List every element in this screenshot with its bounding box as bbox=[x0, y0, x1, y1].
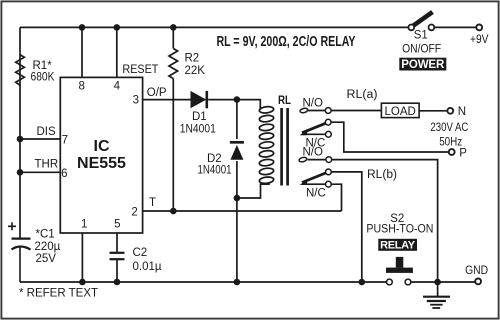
svg-text:T: T bbox=[149, 197, 156, 209]
wire D2 lower lead bbox=[236, 161, 238, 282]
svg-text:8: 8 bbox=[78, 81, 84, 93]
svg-text:C2: C2 bbox=[133, 247, 148, 259]
svg-text:* REFER TEXT: * REFER TEXT bbox=[19, 288, 98, 300]
wire RLa NO to LOAD bbox=[331, 110, 381, 112]
svg-text:NE555: NE555 bbox=[77, 155, 126, 172]
LOAD box bbox=[381, 103, 419, 117]
wire RLa NC stub bbox=[302, 133, 326, 135]
wire RLb pole down to rail bbox=[331, 172, 362, 282]
node dot rail D2 bbox=[234, 279, 241, 286]
svg-text:POWER: POWER bbox=[401, 59, 445, 71]
S2 terminal circles bbox=[387, 279, 393, 285]
svg-text:220µ: 220µ bbox=[35, 241, 61, 253]
contact RLa N/O pivot oval bbox=[300, 108, 309, 114]
S2 push button plunger bbox=[396, 257, 404, 268]
C1 plus sign bbox=[8, 222, 16, 230]
contact RLb arm bbox=[302, 173, 326, 183]
svg-text:S1: S1 bbox=[414, 30, 428, 42]
svg-text:*C1: *C1 bbox=[36, 229, 55, 241]
node dot coil bottom bbox=[234, 195, 241, 202]
POWER box bbox=[399, 58, 446, 71]
svg-text:ON/OFF: ON/OFF bbox=[402, 44, 441, 56]
terminal N bbox=[447, 108, 453, 114]
contact RLa pole circle bbox=[325, 119, 331, 125]
capacitor C1 bbox=[12, 239, 31, 282]
wire C2 to rail bbox=[116, 260, 118, 282]
contact RLb N/O terminal circle bbox=[326, 157, 332, 163]
node dot D1-D2 bbox=[234, 96, 241, 103]
node dot top pin4 bbox=[114, 24, 121, 31]
wire pin2 T line bbox=[143, 210, 342, 212]
terminal P bbox=[449, 149, 455, 155]
contact RLa N/C terminal circle bbox=[326, 131, 332, 137]
contact RLb N/C terminal circle bbox=[326, 181, 332, 187]
contact RLb N/O pivot oval bbox=[299, 157, 308, 163]
svg-text:D1: D1 bbox=[192, 111, 207, 123]
resistor R2 bbox=[169, 49, 178, 79]
wire coil bottom jog bbox=[237, 184, 270, 198]
svg-text:RL(b): RL(b) bbox=[367, 169, 397, 181]
svg-text:0.01µ: 0.01µ bbox=[133, 261, 162, 273]
wire RLa pole to P bbox=[331, 122, 449, 152]
wire pin8 bbox=[81, 27, 83, 77]
node dot DIS bbox=[17, 136, 24, 143]
capacitor C2 bbox=[110, 253, 125, 259]
wire pin1 bbox=[81, 233, 83, 282]
wire D2 branch vertical bbox=[236, 100, 238, 139]
relay coil RL bbox=[259, 106, 274, 184]
svg-text:1N4001: 1N4001 bbox=[180, 124, 216, 136]
wire RLa NO oval to circle bbox=[308, 110, 326, 112]
wire GND stem bbox=[437, 282, 439, 297]
svg-text:GND: GND bbox=[465, 265, 488, 277]
wire pin6 THR bbox=[20, 171, 60, 173]
svg-text:P: P bbox=[459, 147, 467, 159]
wire S1 to +9V bbox=[435, 26, 477, 28]
wire RLb NC stub bbox=[302, 183, 326, 185]
wire pin4 bbox=[116, 27, 118, 77]
wire left rail bbox=[19, 27, 21, 238]
wire R2 bottom lead to T line bbox=[172, 79, 174, 212]
node dot R2-T bbox=[170, 208, 177, 215]
svg-text:230V AC: 230V AC bbox=[430, 122, 468, 134]
svg-text:DIS: DIS bbox=[37, 126, 57, 138]
svg-text:5: 5 bbox=[114, 219, 120, 231]
contact RLb arm pivot wedge bbox=[300, 179, 308, 185]
contact RLa arm bbox=[302, 123, 326, 133]
wire LOAD to N bbox=[419, 110, 447, 112]
diode D2 bbox=[230, 142, 244, 160]
contact RLb pole circle bbox=[326, 169, 332, 175]
terminal +9V bbox=[476, 25, 482, 31]
svg-text:RL(a): RL(a) bbox=[347, 89, 378, 101]
svg-text:LOAD: LOAD bbox=[385, 106, 416, 118]
RELAY box bbox=[378, 239, 417, 251]
svg-text:RL: RL bbox=[278, 95, 291, 107]
svg-text:1: 1 bbox=[81, 219, 87, 231]
svg-text:PUSH-TO-ON: PUSH-TO-ON bbox=[366, 223, 433, 235]
node dot rail C2 bbox=[114, 279, 121, 286]
relay core bars bbox=[280, 108, 283, 186]
terminal GND bbox=[475, 279, 481, 285]
wire pin7 DIS bbox=[20, 138, 60, 140]
node dot top pin8 bbox=[79, 24, 86, 31]
wire D1 to coil top bbox=[208, 100, 260, 109]
svg-text:+9V: +9V bbox=[470, 34, 489, 46]
wire R2 top lead bbox=[172, 27, 174, 48]
svg-text:7: 7 bbox=[62, 135, 68, 147]
svg-text:R2: R2 bbox=[185, 53, 200, 65]
svg-text:RESET: RESET bbox=[122, 64, 158, 76]
svg-text:RELAY: RELAY bbox=[380, 240, 416, 252]
wire RLb NO down right side bbox=[332, 160, 438, 282]
wire pin5 to C2 bbox=[116, 233, 118, 252]
node dot THR bbox=[17, 169, 24, 176]
svg-text:N/O: N/O bbox=[303, 97, 324, 109]
wire RLb NC jog up bbox=[331, 184, 341, 211]
svg-text:RL = 9V, 200Ω, 2C/O RELAY: RL = 9V, 200Ω, 2C/O RELAY bbox=[217, 34, 356, 50]
svg-text:4: 4 bbox=[114, 81, 121, 93]
svg-text:R1*: R1* bbox=[33, 60, 53, 72]
node dot rail pin1 bbox=[79, 279, 86, 286]
svg-text:1N4001: 1N4001 bbox=[198, 165, 232, 177]
wire bottom rail left section bbox=[20, 281, 387, 283]
diode D1 bbox=[191, 91, 207, 108]
svg-text:3: 3 bbox=[133, 95, 139, 107]
svg-text:6: 6 bbox=[61, 168, 67, 180]
wire RLb NO oval to circle bbox=[308, 159, 326, 161]
svg-text:2: 2 bbox=[131, 206, 137, 218]
svg-text:N/O: N/O bbox=[303, 146, 324, 158]
svg-text:N: N bbox=[458, 106, 466, 118]
wire top rail bbox=[20, 26, 408, 28]
svg-text:IC: IC bbox=[94, 138, 110, 155]
svg-text:22K: 22K bbox=[185, 65, 206, 77]
op-amp U1 IC NE555 box bbox=[60, 77, 142, 233]
svg-text:O/P: O/P bbox=[147, 87, 167, 99]
svg-text:D2: D2 bbox=[207, 153, 222, 165]
ground bbox=[423, 297, 450, 308]
node dot rail RLb pole bbox=[359, 279, 366, 286]
svg-text:N/C: N/C bbox=[306, 188, 326, 200]
resistor R1 bbox=[16, 55, 25, 86]
node dot rail ground bbox=[434, 279, 441, 286]
contact RLa N/O terminal circle bbox=[325, 108, 331, 114]
wire bottom rail right section bbox=[411, 281, 475, 283]
wire pin3 O/P to D1 bbox=[143, 99, 191, 101]
node dot top R2 bbox=[170, 24, 177, 31]
contact RLa arm pivot wedge bbox=[300, 129, 308, 135]
svg-text:THR: THR bbox=[35, 159, 59, 171]
svg-text:25V: 25V bbox=[36, 253, 57, 265]
svg-text:680K: 680K bbox=[31, 72, 55, 84]
switch S1 bbox=[408, 12, 434, 30]
